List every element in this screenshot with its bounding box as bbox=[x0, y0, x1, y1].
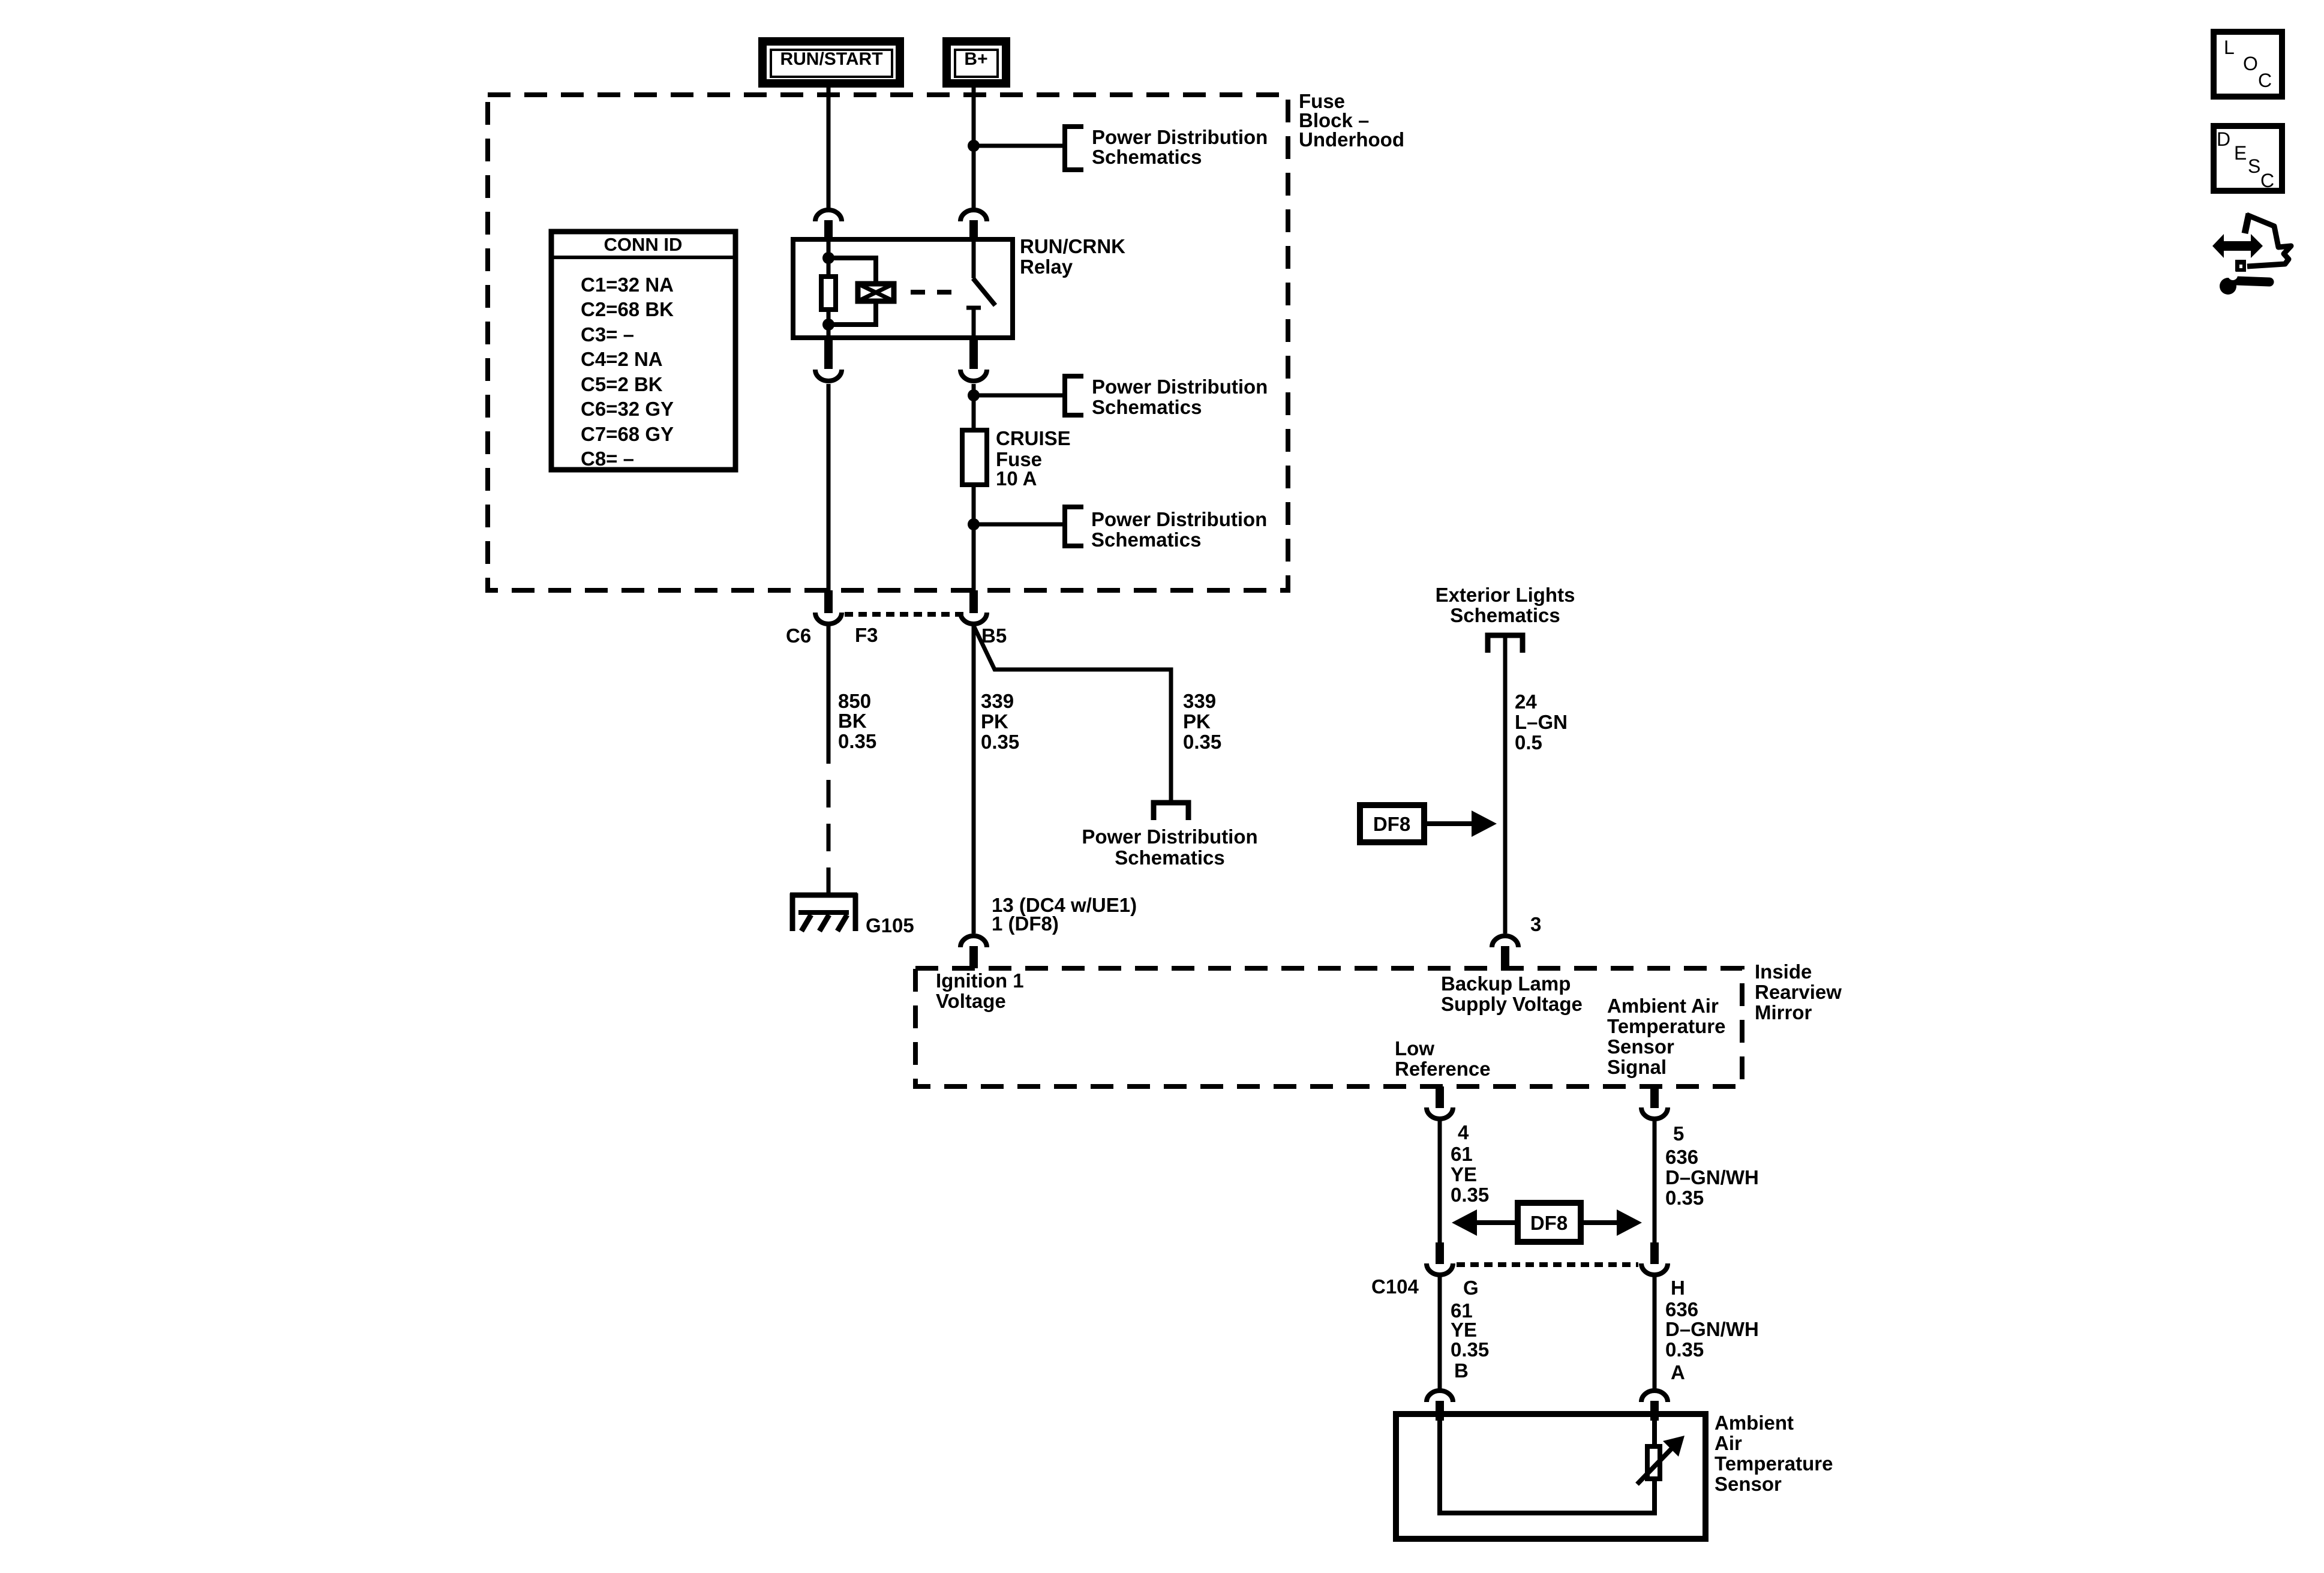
svg-text:Relay: Relay bbox=[1020, 256, 1073, 278]
svg-text:Schematics: Schematics bbox=[1450, 604, 1560, 626]
wire tap to Power Distribution 2 bbox=[974, 394, 1065, 398]
connector 3 cap and pin bbox=[1492, 936, 1518, 968]
connector half cup below relay switch bbox=[960, 338, 987, 381]
connector C104 H pin and cup bbox=[1641, 1242, 1668, 1275]
off-page bracket Power Distribution 3 bbox=[1065, 507, 1083, 546]
label 61 YE 0.35 upper bbox=[1451, 1143, 1489, 1206]
thermistor element bbox=[1637, 1436, 1685, 1484]
svg-text:Temperature: Temperature bbox=[1715, 1452, 1833, 1475]
svg-text:C1=32 NA: C1=32 NA bbox=[581, 274, 674, 296]
svg-text:Ambient Air: Ambient Air bbox=[1607, 995, 1719, 1017]
connector B cap and pin bbox=[1427, 1391, 1453, 1421]
relay RUN/CRNK box bbox=[793, 239, 1013, 338]
svg-text:Power Distribution: Power Distribution bbox=[1092, 126, 1268, 148]
svg-text:Ambient: Ambient bbox=[1715, 1412, 1794, 1434]
label Ambient Air Temperature Sensor Signal bbox=[1607, 995, 1725, 1078]
power rail box RUN/START bbox=[762, 41, 900, 83]
wire tap to Power Distribution 3 bbox=[974, 523, 1065, 527]
svg-text:636: 636 bbox=[1665, 1298, 1698, 1320]
ground G105 bbox=[790, 893, 857, 931]
fuse CRUISE 10 A bbox=[962, 430, 987, 485]
wire B+ feed bbox=[972, 88, 976, 208]
svg-text:Mirror: Mirror bbox=[1755, 1001, 1812, 1023]
svg-text:D: D bbox=[2217, 128, 2230, 150]
svg-text:636: 636 bbox=[1665, 1146, 1698, 1168]
off-page staple Exterior Lights bbox=[1488, 635, 1523, 653]
wire 636 D-GN/WH upper bbox=[1653, 1121, 1657, 1242]
label 636 D-GN/WH 0.35 lower bbox=[1665, 1298, 1759, 1361]
label Inside Rearview Mirror bbox=[1755, 960, 1842, 1023]
svg-text:Backup Lamp: Backup Lamp bbox=[1441, 972, 1571, 995]
wire tap to Power Distribution 1 bbox=[974, 144, 1065, 148]
svg-text:850: 850 bbox=[838, 690, 871, 712]
svg-text:L–GN: L–GN bbox=[1515, 711, 1568, 733]
svg-text:C: C bbox=[2258, 70, 2272, 91]
sensor internal wires bbox=[1440, 1417, 1655, 1513]
connector row dashed line C104 bbox=[1457, 1262, 1638, 1267]
svg-text:24: 24 bbox=[1515, 691, 1537, 713]
connector 5 pin and cup bbox=[1641, 1086, 1668, 1119]
svg-text:B5: B5 bbox=[981, 625, 1007, 647]
wire fuse to connector B5 bbox=[972, 485, 976, 590]
svg-text:YE: YE bbox=[1451, 1319, 1477, 1341]
wire 24 L-GN bbox=[1503, 635, 1508, 933]
junction relay coil top bbox=[822, 252, 834, 264]
connector B5 pin and cup bbox=[960, 590, 987, 624]
label Ambient Air Temperature Sensor bbox=[1715, 1412, 1833, 1495]
relay linkage dashed bbox=[911, 290, 960, 295]
label Power Distribution Schematics 3 bbox=[1091, 508, 1267, 551]
inside rearview mirror dashed box bbox=[915, 968, 1742, 1086]
svg-text:H: H bbox=[1671, 1277, 1685, 1299]
off-page bracket Power Distribution 1 bbox=[1065, 127, 1083, 170]
svg-text:Low: Low bbox=[1395, 1037, 1434, 1059]
svg-text:C104: C104 bbox=[1371, 1275, 1419, 1298]
connector C104 G pin and cup bbox=[1427, 1242, 1453, 1275]
wire RUN/START feed bbox=[827, 88, 831, 208]
label CRUISE Fuse 10 A bbox=[996, 427, 1071, 490]
svg-text:0.35: 0.35 bbox=[1665, 1187, 1704, 1209]
wire relay switch to fuse bbox=[972, 384, 976, 430]
DF8 reference box 1 bbox=[1360, 805, 1424, 842]
wire 850 BK solid part bbox=[827, 626, 831, 764]
relay resistor bbox=[821, 277, 836, 310]
label Backup Lamp Supply Voltage bbox=[1441, 972, 1583, 1015]
svg-text:Schematics: Schematics bbox=[1092, 396, 1202, 418]
wire 339 PK branch bbox=[974, 626, 1171, 803]
svg-text:G105: G105 bbox=[866, 914, 914, 936]
arrow DF8 left bbox=[1452, 1209, 1518, 1236]
wire 636 D-GN/WH lower bbox=[1653, 1277, 1657, 1389]
label RUN/CRNK Relay bbox=[1020, 235, 1125, 278]
svg-text:Signal: Signal bbox=[1607, 1056, 1667, 1078]
svg-text:Power Distribution: Power Distribution bbox=[1082, 825, 1257, 848]
svg-text:10 A: 10 A bbox=[996, 467, 1037, 490]
svg-text:Sensor: Sensor bbox=[1607, 1035, 1674, 1058]
relay coil-side wire bbox=[827, 239, 831, 274]
svg-text:A: A bbox=[1671, 1361, 1685, 1383]
label 850 BK 0.35 bbox=[838, 690, 876, 752]
junction B+ tap 2 bbox=[968, 389, 980, 401]
svg-text:C2=68 BK: C2=68 BK bbox=[581, 298, 674, 320]
svg-text:D–GN/WH: D–GN/WH bbox=[1665, 1166, 1759, 1188]
svg-text:Exterior Lights: Exterior Lights bbox=[1436, 584, 1575, 606]
ambient air temperature sensor box bbox=[1396, 1414, 1706, 1539]
relay coil element bbox=[858, 284, 894, 301]
svg-text:Underhood: Underhood bbox=[1299, 128, 1404, 151]
svg-text:YE: YE bbox=[1451, 1163, 1477, 1185]
connector half cap at relay switch top bbox=[960, 210, 987, 239]
svg-text:Rearview: Rearview bbox=[1755, 981, 1842, 1003]
svg-text:Schematics: Schematics bbox=[1092, 146, 1202, 168]
label Ignition 1 Voltage bbox=[936, 969, 1024, 1012]
svg-text:F3: F3 bbox=[855, 624, 878, 646]
svg-text:S: S bbox=[2248, 155, 2260, 177]
svg-text:CONN ID: CONN ID bbox=[604, 234, 683, 255]
fuse block dashed border bbox=[488, 95, 1288, 590]
connector C6 pin and cup bbox=[815, 590, 842, 624]
svg-text:61: 61 bbox=[1451, 1143, 1473, 1165]
svg-text:PK: PK bbox=[981, 710, 1008, 733]
label 636 D-GN/WH 0.35 upper bbox=[1665, 1146, 1759, 1209]
svg-text:CRUISE: CRUISE bbox=[996, 427, 1071, 449]
label 61 YE 0.35 lower bbox=[1451, 1299, 1489, 1361]
svg-text:339: 339 bbox=[981, 690, 1014, 712]
svg-text:D–GN/WH: D–GN/WH bbox=[1665, 1318, 1759, 1340]
svg-text:1 (DF8): 1 (DF8) bbox=[992, 912, 1059, 935]
svg-text:0.35: 0.35 bbox=[838, 730, 876, 752]
connector 4 pin and cup bbox=[1427, 1086, 1453, 1119]
label Low Reference bbox=[1395, 1037, 1491, 1080]
svg-text:O: O bbox=[2243, 53, 2258, 74]
relay coil-side wire lower bbox=[827, 312, 831, 338]
svg-text:Sensor: Sensor bbox=[1715, 1473, 1782, 1495]
connector half cup below relay coil bbox=[815, 338, 842, 381]
label Power Distribution Schematics 4 bbox=[1082, 825, 1257, 869]
svg-text:DF8: DF8 bbox=[1373, 813, 1410, 835]
svg-text:B+: B+ bbox=[964, 49, 987, 69]
label Power Distribution Schematics 2 bbox=[1092, 376, 1268, 418]
power rail box B+ bbox=[947, 41, 1006, 83]
relay coil branch wires bbox=[828, 258, 876, 325]
wire 61 YE upper bbox=[1438, 1121, 1442, 1242]
junction B+ tap 3 bbox=[968, 518, 980, 530]
svg-text:3: 3 bbox=[1530, 913, 1541, 935]
DF8 reference box 2 bbox=[1518, 1203, 1581, 1242]
svg-text:Inside: Inside bbox=[1755, 960, 1812, 983]
svg-text:E: E bbox=[2234, 142, 2247, 164]
svg-text:RUN/CRNK: RUN/CRNK bbox=[1020, 235, 1125, 257]
wire 61 YE lower bbox=[1438, 1277, 1442, 1389]
svg-text:4: 4 bbox=[1458, 1121, 1469, 1143]
icon component locator arrow and wrench bbox=[2212, 214, 2291, 295]
connector A cap and pin bbox=[1641, 1391, 1668, 1421]
svg-text:RUN/START: RUN/START bbox=[780, 49, 882, 69]
svg-text:Air: Air bbox=[1715, 1432, 1742, 1454]
label Power Distribution Schematics 1 bbox=[1092, 126, 1268, 168]
arrow DF8 to wire bbox=[1424, 810, 1497, 837]
junction relay coil bottom bbox=[822, 319, 834, 331]
label Exterior Lights Schematics bbox=[1436, 584, 1575, 626]
svg-text:Power Distribution: Power Distribution bbox=[1092, 376, 1268, 398]
CONN ID table bbox=[549, 232, 738, 470]
svg-text:C6=32 GY: C6=32 GY bbox=[581, 398, 674, 420]
label 24 L-GN 0.5 bbox=[1515, 691, 1568, 754]
off-page staple Power Distribution 4 bbox=[1154, 803, 1188, 820]
label 339 PK 0.35 right bbox=[1183, 690, 1221, 753]
svg-text:339: 339 bbox=[1183, 690, 1216, 712]
svg-text:5: 5 bbox=[1673, 1122, 1684, 1145]
svg-text:C5=2 BK: C5=2 BK bbox=[581, 373, 663, 395]
svg-text:C7=68 GY: C7=68 GY bbox=[581, 423, 674, 445]
label 339 PK 0.35 mid bbox=[981, 690, 1019, 753]
svg-text:BK: BK bbox=[838, 710, 867, 732]
svg-text:C3= –: C3= – bbox=[581, 323, 634, 346]
svg-text:Supply Voltage: Supply Voltage bbox=[1441, 993, 1583, 1015]
wire 339 PK main bbox=[972, 626, 976, 933]
label 13 (DC4 w/UE1) 1 (DF8) bbox=[992, 894, 1137, 935]
off-page bracket Power Distribution 2 bbox=[1065, 376, 1083, 415]
connector half cap at relay coil top bbox=[815, 210, 842, 239]
connector row dashed line C6-B5 bbox=[845, 612, 966, 617]
wire relay coil to connector C6 bbox=[827, 384, 831, 590]
relay switch bbox=[966, 239, 995, 338]
svg-text:0.35: 0.35 bbox=[1451, 1184, 1489, 1206]
svg-text:C: C bbox=[2260, 170, 2274, 191]
label Fuse Block - Underhood bbox=[1299, 90, 1404, 151]
svg-text:DF8: DF8 bbox=[1530, 1212, 1568, 1234]
svg-text:0.35: 0.35 bbox=[1451, 1338, 1489, 1361]
svg-text:B: B bbox=[1454, 1359, 1469, 1382]
icon DESC box bbox=[2214, 126, 2282, 191]
wire 850 BK dashed part bbox=[827, 780, 831, 912]
svg-text:Schematics: Schematics bbox=[1091, 529, 1201, 551]
svg-text:Reference: Reference bbox=[1395, 1058, 1491, 1080]
svg-text:L: L bbox=[2224, 37, 2235, 58]
svg-text:G: G bbox=[1463, 1277, 1479, 1299]
icon LOC box bbox=[2214, 32, 2282, 97]
junction B+ tap 1 bbox=[968, 140, 980, 152]
svg-text:C6: C6 bbox=[786, 625, 811, 647]
svg-text:C8= –: C8= – bbox=[581, 448, 634, 470]
connector Ignition 1 cap and pin bbox=[960, 936, 987, 968]
svg-text:Schematics: Schematics bbox=[1115, 846, 1224, 869]
svg-text:PK: PK bbox=[1183, 710, 1211, 733]
svg-text:Temperature: Temperature bbox=[1607, 1015, 1725, 1037]
svg-text:Ignition 1: Ignition 1 bbox=[936, 969, 1024, 992]
svg-text:C4=2 NA: C4=2 NA bbox=[581, 348, 663, 370]
svg-text:Voltage: Voltage bbox=[936, 990, 1006, 1012]
svg-text:Power Distribution: Power Distribution bbox=[1091, 508, 1267, 530]
arrow DF8 right bbox=[1581, 1209, 1642, 1236]
svg-text:0.35: 0.35 bbox=[1183, 731, 1221, 753]
svg-text:0.35: 0.35 bbox=[1665, 1338, 1704, 1361]
svg-text:0.5: 0.5 bbox=[1515, 731, 1542, 754]
svg-text:0.35: 0.35 bbox=[981, 731, 1019, 753]
